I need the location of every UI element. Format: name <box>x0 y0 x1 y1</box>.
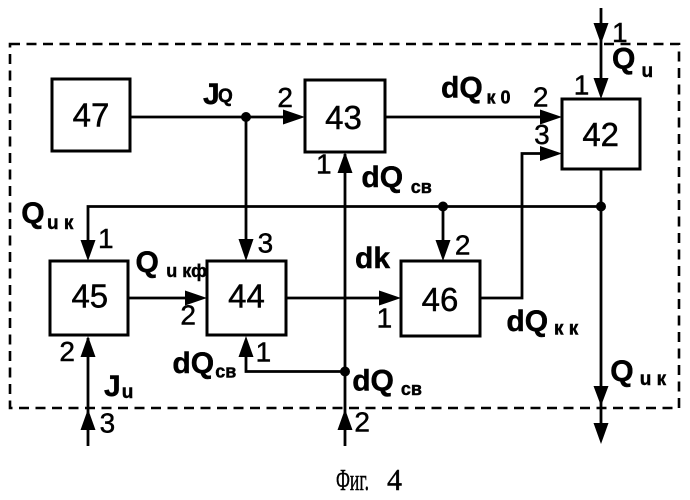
svg-text:4: 4 <box>387 462 402 497</box>
block 43 <box>305 80 385 152</box>
wire Q_ukf: 45 to 44 <box>128 297 186 300</box>
junction below 42 <box>596 202 606 212</box>
svg-text:к к: к к <box>554 319 579 340</box>
arrowhead into 42 pin 3 <box>540 146 562 161</box>
svg-text:43: 43 <box>325 99 362 136</box>
svg-text:Q: Q <box>136 246 159 279</box>
wire dQ_sv vertical from bottom to 43 pin 1 <box>344 154 347 446</box>
svg-text:47: 47 <box>73 97 110 134</box>
svg-text:44: 44 <box>228 278 265 315</box>
svg-text:2: 2 <box>455 230 471 261</box>
svg-text:св: св <box>411 177 432 197</box>
arrowhead into 44 bottom pin 1 <box>239 336 254 357</box>
svg-text:u: u <box>642 61 654 82</box>
svg-text:dQ: dQ <box>172 347 214 380</box>
svg-text:3: 3 <box>534 119 550 150</box>
block 47 <box>52 79 130 151</box>
svg-text:2: 2 <box>180 300 196 331</box>
arrowhead into 43 bottom pin 1 <box>338 152 353 173</box>
wire J_u input bottom left <box>87 338 90 446</box>
arrowhead Q_uk output final <box>594 423 609 444</box>
wire Q_uk feedback horizontal <box>88 207 601 243</box>
wire dk: 44 to 46 <box>286 297 380 300</box>
wire dQ_kk: 46 to 42 pin 3 <box>480 154 542 299</box>
arrowhead dQ_sv entering at dashed border <box>338 409 353 430</box>
svg-text:2: 2 <box>354 407 370 438</box>
svg-text:св: св <box>215 362 236 382</box>
wire J_Q: 47 to 43 <box>130 116 284 119</box>
svg-text:dQ: dQ <box>352 365 394 398</box>
arrowhead into 43 pin 2 <box>283 110 305 125</box>
svg-text:J: J <box>104 370 121 403</box>
arrowhead into 45 top pin 1 <box>81 240 96 261</box>
svg-text:dQ: dQ <box>506 305 548 338</box>
junction J_Q node <box>241 112 251 122</box>
wire dQ_k0: 43 to 42 pin 2 <box>385 116 541 119</box>
block 42 <box>562 99 640 169</box>
svg-text:dk: dk <box>355 242 390 275</box>
svg-text:1: 1 <box>316 149 332 180</box>
svg-text:2: 2 <box>277 82 293 113</box>
arrowhead at dashed border bottom right <box>594 386 609 406</box>
wire branch down to 46 pin 2 <box>442 207 445 243</box>
arrowhead into 45 bottom pin 2 <box>81 336 96 357</box>
svg-text:42: 42 <box>582 116 619 153</box>
svg-text:u к: u к <box>640 369 667 390</box>
svg-text:3: 3 <box>258 228 274 259</box>
block 44 <box>207 261 286 335</box>
arrowhead into 42 pin 2 <box>540 110 562 125</box>
svg-text:Q: Q <box>21 197 44 230</box>
svg-text:u: u <box>122 382 134 403</box>
arrowhead at dashed border top <box>594 23 609 44</box>
arrowhead into 46 top pin 2 <box>436 240 451 261</box>
svg-text:Фиг.: Фиг. <box>336 462 369 497</box>
svg-text:1: 1 <box>377 303 393 334</box>
svg-text:2: 2 <box>533 82 549 113</box>
arrowhead into 46 pin 1 <box>379 291 401 306</box>
wire 42 output down <box>600 169 603 425</box>
arrowhead into 44 top pin 3 <box>239 239 254 261</box>
block 45 <box>50 261 128 335</box>
svg-text:Q: Q <box>218 86 233 107</box>
arrowhead J_u at dashed border <box>81 409 96 430</box>
arrowhead into 42 pin 1 top <box>594 78 609 99</box>
svg-text:1: 1 <box>256 337 272 368</box>
svg-text:u кф: u кф <box>166 261 207 281</box>
svg-text:45: 45 <box>71 278 108 315</box>
svg-text:46: 46 <box>422 281 459 318</box>
svg-text:3: 3 <box>100 408 116 439</box>
svg-text:dQ: dQ <box>361 161 403 194</box>
svg-text:Q: Q <box>612 43 635 76</box>
arrowhead into 44 pin 2 <box>185 291 207 306</box>
svg-text:u к: u к <box>47 213 74 234</box>
svg-text:св: св <box>401 379 422 399</box>
dashed border <box>10 44 679 408</box>
wire dQ_sv branch to 44 pin 1 <box>246 355 345 372</box>
wire J_Q branch down to 44 pin 3 <box>245 117 248 242</box>
block 46 <box>401 261 480 336</box>
svg-text:1: 1 <box>574 70 590 101</box>
svg-text:Q: Q <box>610 355 633 388</box>
junction dQ_sv <box>340 367 350 377</box>
svg-text:1: 1 <box>98 223 114 254</box>
junction above 46 <box>438 202 448 212</box>
svg-text:dQ: dQ <box>441 72 483 105</box>
svg-text:к 0: к 0 <box>487 88 511 108</box>
wire Q_u top input <box>600 8 603 80</box>
svg-text:2: 2 <box>59 336 75 367</box>
